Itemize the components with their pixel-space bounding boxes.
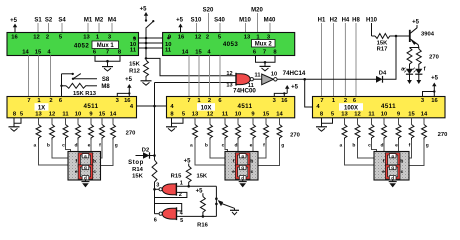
junction R15 to pin 1 <box>187 185 190 188</box>
resistor 270 segment a (ones digit) <box>38 118 40 125</box>
svg-text:270: 270 <box>429 55 439 61</box>
resistor 270 segment f (hundreds digit) <box>411 118 413 125</box>
resistor 270 segment e (hundreds digit) <box>398 118 400 125</box>
svg-text:S1: S1 <box>34 18 42 24</box>
resistor 270 segment d (tens digit) <box>237 118 239 125</box>
wire M20 to Mux 2 <box>257 13 259 33</box>
resistor 270 segment f (tens digit) <box>265 118 267 125</box>
svg-text:R15: R15 <box>171 174 182 180</box>
svg-text:7: 7 <box>187 98 190 104</box>
wire stop net vertical <box>154 83 156 161</box>
svg-text:15K: 15K <box>129 62 140 68</box>
svg-text:b: b <box>47 143 50 149</box>
svg-text:14: 14 <box>276 112 283 118</box>
wire S10 to Mux 2 <box>196 23 198 33</box>
svg-text:g: g <box>241 165 244 170</box>
svg-text:M20: M20 <box>251 8 263 14</box>
svg-text:+5: +5 <box>196 188 204 194</box>
svg-text:6: 6 <box>154 218 157 224</box>
wire segment e to display DS3 hundreds <box>398 148 400 153</box>
svg-text:7: 7 <box>263 50 266 56</box>
IC U6 4511 BCD decoder (10X) <box>167 97 295 118</box>
svg-text:g: g <box>115 144 118 149</box>
svg-text:16: 16 <box>281 98 288 104</box>
svg-text:16: 16 <box>178 34 185 40</box>
svg-text:+5: +5 <box>125 77 133 83</box>
svg-text:b: b <box>400 159 403 165</box>
svg-text:S4: S4 <box>58 18 66 24</box>
svg-text:12: 12 <box>33 34 39 40</box>
svg-text:13: 13 <box>35 112 42 118</box>
wire latch upper output <box>155 188 159 190</box>
svg-text:270: 270 <box>126 131 136 137</box>
svg-text:H1: H1 <box>318 18 326 24</box>
NAND gate U3c latch lower <box>162 208 176 219</box>
wire mux bus pin 10 <box>139 42 163 44</box>
svg-text:S2: S2 <box>45 18 53 24</box>
svg-text:R16: R16 <box>197 223 208 227</box>
svg-text:Mux 2: Mux 2 <box>255 42 273 48</box>
LED colon left <box>409 66 411 69</box>
NAND gate U3b latch upper <box>162 184 176 195</box>
resistor 270 segment a (hundreds digit) <box>344 118 346 125</box>
wire H1 to 4511-3 <box>321 23 323 96</box>
svg-text:e: e <box>232 170 235 175</box>
svg-text:7: 7 <box>27 98 30 104</box>
wire segment b to display DS1 ones <box>52 148 68 159</box>
svg-text:11: 11 <box>165 48 172 54</box>
resistor 270 segment e (tens digit) <box>252 118 254 125</box>
resistor 270 segment c (tens digit) <box>224 118 226 125</box>
wire inverter output to D4 <box>277 78 376 80</box>
svg-text:2: 2 <box>208 98 211 104</box>
resistor 270 colon right <box>416 49 421 66</box>
svg-text:c: c <box>368 144 371 149</box>
svg-text:b: b <box>93 159 96 165</box>
svg-text:g: g <box>426 144 429 149</box>
svg-text:Stop: Stop <box>128 160 144 166</box>
wire Mux1 pin 14 to 4511-1 <box>28 56 30 97</box>
svg-text:2: 2 <box>206 34 209 40</box>
svg-text:16: 16 <box>431 98 438 104</box>
transistor Q1 3904 NPN <box>409 30 411 42</box>
svg-text:15: 15 <box>408 112 415 118</box>
svg-text:H8: H8 <box>352 18 360 24</box>
wire Mux1 pin 4 to 4511-1 <box>50 56 52 97</box>
IC U7 4511 BCD decoder (100X) <box>313 97 446 118</box>
svg-text:S40: S40 <box>214 18 225 24</box>
wire segment e to display DS1 ones <box>90 148 92 153</box>
svg-text:11: 11 <box>222 112 229 118</box>
ground for 4511-2 pins 8 5 <box>171 118 173 127</box>
wire segment d to display DS2 tens <box>237 148 239 153</box>
wire R17 to Q1 base <box>393 35 410 37</box>
svg-text:d: d <box>75 143 78 149</box>
junction blanking to 4511-3 <box>303 78 306 81</box>
svg-text:+5: +5 <box>10 18 18 24</box>
svg-text:M4: M4 <box>108 18 117 24</box>
svg-text:11: 11 <box>368 112 375 118</box>
wire R14 to latch gate output <box>154 185 156 214</box>
svg-text:16: 16 <box>124 98 131 104</box>
svg-text:12: 12 <box>354 112 360 118</box>
IC U1 4052 analog mux (Mux 1) <box>7 33 139 56</box>
wire Q1 emitter to LED resistors <box>410 45 419 48</box>
svg-text:15: 15 <box>263 112 270 118</box>
svg-text:15: 15 <box>99 112 106 118</box>
resistor 270 segment b (hundreds digit) <box>357 118 359 125</box>
svg-text:e: e <box>395 144 398 149</box>
svg-text:2: 2 <box>49 98 52 104</box>
wire segment d to display DS3 hundreds <box>383 148 385 153</box>
svg-text:74HC14: 74HC14 <box>283 70 306 77</box>
wire latch upper pin 1 to switch <box>176 185 216 187</box>
svg-text:d: d <box>235 143 238 149</box>
svg-text:7: 7 <box>106 50 109 56</box>
ground for 4511-3 pins 8 5 <box>321 118 323 127</box>
wire 4511-1 pin 4 to 4511-2 pin 4 <box>137 105 167 107</box>
resistor 270 segment d (hundreds digit) <box>383 118 385 125</box>
svg-text:100X: 100X <box>344 105 358 111</box>
wire Mux2 pin 4 to 4511-2 <box>209 56 211 97</box>
svg-text:10: 10 <box>235 112 241 118</box>
wire to 4511-3 pin 4 <box>305 79 313 107</box>
wire Mux2 pin 15 to 4511-2 <box>198 56 200 97</box>
wire M2 to Mux 1 <box>98 23 100 33</box>
svg-text:15: 15 <box>35 50 42 56</box>
svg-text:12: 12 <box>207 112 213 118</box>
svg-text:c: c <box>401 170 404 175</box>
svg-text:c: c <box>93 170 96 175</box>
junction latch output <box>153 188 156 191</box>
wire switch junction to NAND pin 12 <box>146 58 236 75</box>
ground for display DS1 ones <box>84 180 86 182</box>
svg-text:2: 2 <box>46 34 49 40</box>
wire segment g to display DS3 hundreds <box>409 148 424 166</box>
svg-text:H2: H2 <box>330 18 338 24</box>
resistor R17 15K base resistor <box>372 35 376 37</box>
junction blanking wire <box>153 105 156 108</box>
switch SW1 set/run select <box>145 19 147 21</box>
svg-text:7: 7 <box>320 98 323 104</box>
7-segment display DS1 ones <box>68 152 101 181</box>
resistor 270 segment a (tens digit) <box>194 118 196 125</box>
svg-text:10: 10 <box>381 112 387 118</box>
svg-text:270: 270 <box>290 133 300 139</box>
wire S1 to Mux 1 <box>37 23 39 33</box>
resistor 270 segment c (ones digit) <box>65 118 67 125</box>
svg-text:R17: R17 <box>377 47 388 53</box>
svg-text:b: b <box>205 143 208 149</box>
svg-text:d: d <box>241 175 244 180</box>
svg-text:d: d <box>391 175 394 180</box>
svg-text:e: e <box>382 170 385 175</box>
wire H2 to 4511-3 <box>333 23 335 96</box>
svg-text:a: a <box>34 144 37 149</box>
svg-text:4052: 4052 <box>74 42 90 49</box>
wire M1 to Mux 1 <box>87 23 89 33</box>
wire segment a to display DS3 hundreds <box>345 148 375 166</box>
wire select column to 4511-1 pin 6 <box>61 74 63 96</box>
wire segment c to display DS3 hundreds <box>372 148 377 153</box>
svg-text:14: 14 <box>22 50 29 56</box>
LED colon right <box>418 66 420 69</box>
node S8 label <box>73 78 97 80</box>
wire segment e to display DS2 tens <box>252 148 254 153</box>
svg-text:13: 13 <box>83 34 90 40</box>
Mux 1 name tag <box>92 41 119 49</box>
wire H4 to 4511-3 <box>344 23 346 96</box>
svg-text:14: 14 <box>110 112 117 118</box>
svg-text:10: 10 <box>271 72 277 78</box>
junction R16 to pin 5 <box>202 215 205 218</box>
wire segment f to display DS3 hundreds <box>409 148 412 159</box>
svg-text:3904: 3904 <box>421 32 435 38</box>
svg-text:R14: R14 <box>132 167 143 173</box>
wire Mux1 pin 15 to 4511-1 <box>38 56 40 97</box>
svg-text:4511: 4511 <box>237 103 252 110</box>
svg-text:g: g <box>281 144 284 149</box>
svg-text:11: 11 <box>130 48 137 54</box>
svg-text:13: 13 <box>341 112 348 118</box>
svg-text:M8: M8 <box>101 84 110 90</box>
svg-text:+5: +5 <box>431 76 439 82</box>
7-segment display DS2 tens <box>225 152 258 181</box>
junction D2 anode <box>153 154 156 157</box>
svg-text:15K: 15K <box>132 174 143 180</box>
wire S4 to Mux 1 <box>61 23 63 33</box>
svg-text:13: 13 <box>226 83 232 89</box>
wire latch lower output <box>155 213 159 215</box>
svg-text:c: c <box>222 144 225 149</box>
Mux 2 name tag <box>252 40 276 48</box>
svg-text:a: a <box>340 144 343 149</box>
wire segment c to display DS2 tens <box>225 148 228 153</box>
wire NAND out to inverter <box>254 78 262 80</box>
ground below R12 <box>145 78 147 81</box>
svg-text:M2: M2 <box>95 18 104 24</box>
svg-text:H10: H10 <box>366 18 378 24</box>
svg-text:13: 13 <box>192 112 199 118</box>
svg-text:S10: S10 <box>191 18 202 24</box>
svg-text:a: a <box>84 153 87 158</box>
ground for 4511-1 pins 8 5 <box>13 118 15 127</box>
svg-text:H4: H4 <box>342 18 350 24</box>
svg-text:3: 3 <box>156 183 159 189</box>
IC U5 4511 BCD decoder (1X) <box>7 97 137 118</box>
svg-text:+5: +5 <box>184 159 192 165</box>
svg-text:1: 1 <box>180 180 183 186</box>
svg-text:74HC00: 74HC00 <box>233 87 256 94</box>
wire latch lower pin 4 cross-couple <box>155 204 182 211</box>
wire M4 to Mux 1 <box>111 23 113 33</box>
wire segment g to display DS1 ones <box>101 148 114 166</box>
svg-text:M10: M10 <box>239 18 251 24</box>
wire segment g to display DS2 tens <box>258 148 280 166</box>
wire segment b to display DS3 hundreds <box>358 148 375 159</box>
wire D4 to Q1 base junction <box>383 36 397 79</box>
svg-text:d: d <box>84 175 87 180</box>
svg-text:+5: +5 <box>176 18 184 24</box>
svg-text:b: b <box>352 143 355 149</box>
wire segment f to display DS1 ones <box>101 148 103 159</box>
wire segment d to display DS1 ones <box>77 148 79 153</box>
ground for display DS2 tens <box>242 180 244 182</box>
svg-text:12: 12 <box>195 34 201 40</box>
wire S40 to Mux 2 <box>219 23 221 33</box>
wire mux bus pin 11 <box>139 47 163 49</box>
resistor 270 segment b (tens digit) <box>209 118 211 125</box>
switch S8 <box>62 73 73 75</box>
svg-text:a: a <box>391 153 394 158</box>
ground for Mux 2 pins 6 7 8 <box>256 56 276 63</box>
wire segment f to display DS2 tens <box>258 148 266 159</box>
svg-text:e: e <box>250 144 253 149</box>
svg-text:1X: 1X <box>38 105 45 111</box>
wire segment c to display DS1 ones <box>66 148 71 153</box>
svg-text:S8: S8 <box>102 77 110 83</box>
svg-text:16: 16 <box>11 34 18 40</box>
wire segment b to display DS2 tens <box>210 148 225 159</box>
wire H8 to 4511-3 <box>355 23 357 96</box>
svg-text:11: 11 <box>62 112 69 118</box>
svg-text:c: c <box>62 144 65 149</box>
svg-text:4511: 4511 <box>381 103 396 110</box>
resistor 270 segment g (ones digit) <box>112 118 114 125</box>
svg-text:4511: 4511 <box>83 103 98 110</box>
svg-text:g: g <box>391 165 394 170</box>
NAND gate U3a 74HC00 <box>236 74 250 85</box>
svg-text:10X: 10X <box>201 105 212 111</box>
wire H10 to R17 <box>371 23 373 36</box>
svg-text:+5: +5 <box>140 7 148 13</box>
svg-text:a: a <box>190 144 193 149</box>
svg-text:f: f <box>424 66 426 72</box>
svg-text:M1: M1 <box>84 18 93 24</box>
resistor 270 segment c (hundreds digit) <box>371 118 373 125</box>
svg-text:15K: 15K <box>196 174 207 180</box>
svg-text:12: 12 <box>226 71 232 77</box>
svg-text:14: 14 <box>182 50 189 56</box>
svg-text:D2: D2 <box>142 147 149 153</box>
svg-text:Mux 1: Mux 1 <box>97 43 115 49</box>
svg-text:d: d <box>381 143 384 149</box>
svg-text:+5: +5 <box>412 20 420 26</box>
wire Mux2 to 4511-2 pin 6 <box>219 56 221 97</box>
svg-text:b: b <box>250 159 253 165</box>
ground for Mux 1 pins 6 7 8 <box>95 56 120 62</box>
7-segment display DS3 hundreds <box>374 152 409 181</box>
wire M40 to Mux 2 <box>269 23 271 33</box>
wire segment a to display DS2 tens <box>195 148 225 166</box>
resistor 270 colon left <box>407 48 412 67</box>
wire stop line vertical to NAND pin 13 <box>155 82 237 84</box>
junction on pin 9 wire right <box>167 37 170 40</box>
inverter U4 74HC14 <box>262 74 274 85</box>
svg-text:c: c <box>251 170 254 175</box>
resistor 270 segment e (ones digit) <box>90 118 92 125</box>
wire mux bus pin 9 <box>139 37 163 39</box>
svg-text:+5: +5 <box>291 85 299 91</box>
resistor 270 segment g (hundreds digit) <box>423 118 425 125</box>
resistor 270 segment d (ones digit) <box>77 118 79 125</box>
svg-text:5: 5 <box>180 218 183 224</box>
wire latch upper pin 2 cross-couple <box>155 192 187 197</box>
svg-text:10: 10 <box>75 112 81 118</box>
resistor R13 15K <box>60 85 62 87</box>
wire latch lower pin 5 to switch <box>177 215 217 217</box>
svg-text:4053: 4053 <box>223 41 239 48</box>
IC U2 4053 analog mux (Mux 2) <box>163 33 295 56</box>
ground for display DS3 hundreds <box>392 180 394 182</box>
svg-text:270: 270 <box>438 132 448 138</box>
junction on pin 9 wire left <box>133 37 136 40</box>
svg-text:a: a <box>241 153 244 158</box>
wire switch to mux bus <box>145 28 147 59</box>
svg-text:12: 12 <box>49 112 55 118</box>
junction D4 feedback to base <box>395 35 398 38</box>
wire segment a to display DS1 ones <box>39 148 69 166</box>
resistor 270 segment g (tens digit) <box>279 118 281 125</box>
svg-text:e: e <box>75 170 78 175</box>
svg-text:13: 13 <box>244 34 251 40</box>
resistor 270 segment f (ones digit) <box>101 118 103 125</box>
svg-text:D4: D4 <box>379 71 387 77</box>
wire S2 to Mux 1 <box>48 23 50 33</box>
wire S20 to Mux 2 <box>208 13 210 33</box>
svg-text:15: 15 <box>195 50 202 56</box>
svg-text:R12: R12 <box>129 69 140 75</box>
svg-text:S20: S20 <box>203 8 214 14</box>
svg-text:g: g <box>84 165 87 170</box>
wire Mux2 pin 14 to 4511-2 <box>188 56 190 97</box>
resistor 270 segment b (ones digit) <box>51 118 53 125</box>
svg-text:14: 14 <box>421 112 428 118</box>
ground for SW2 <box>234 208 236 210</box>
wire M10 to Mux 2 <box>245 23 247 33</box>
svg-text:M40: M40 <box>264 18 276 24</box>
switch SW2 start/stop <box>215 186 217 216</box>
svg-text:2: 2 <box>344 98 347 104</box>
svg-text:11: 11 <box>255 72 261 78</box>
svg-text:e: e <box>88 144 91 149</box>
